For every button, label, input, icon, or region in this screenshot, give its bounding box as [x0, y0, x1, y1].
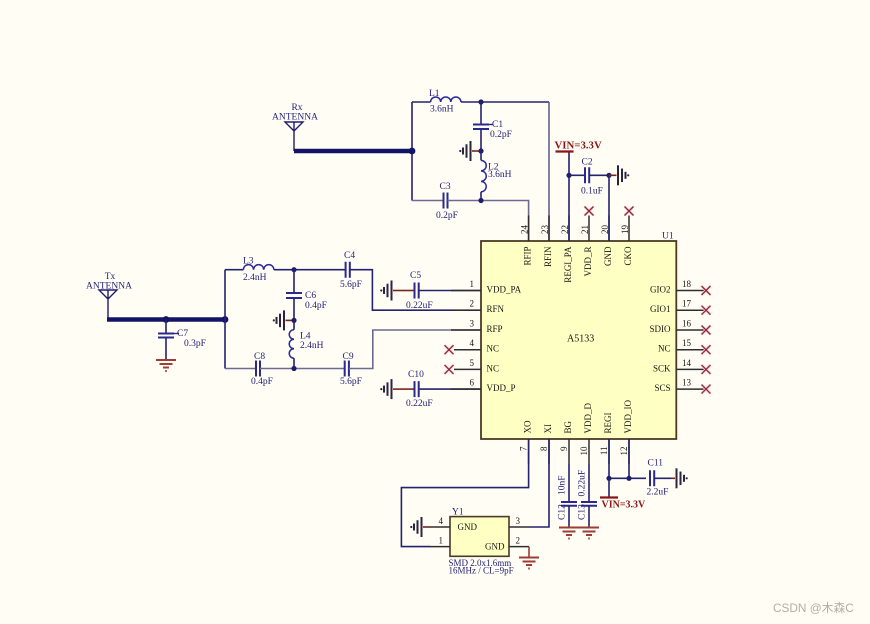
wire pin11 node to C11: [609, 477, 646, 479]
svg-text:4: 4: [470, 338, 475, 348]
svg-text:2: 2: [516, 536, 521, 546]
no-connect X pin 13: [702, 385, 711, 394]
pin 4 NC: [454, 338, 499, 354]
svg-text:5.6pF: 5.6pF: [340, 280, 362, 290]
node junction dot Tx net end: [222, 316, 229, 323]
crystal pin 2 stub: [509, 536, 529, 547]
node junction dot thick wire to L-network: [409, 148, 416, 155]
svg-text:CKO: CKO: [623, 246, 633, 266]
wire pin7 to crystal pin1: [401, 439, 528, 547]
wire pin8 to crystal pin3: [529, 439, 549, 527]
ground at C1/L2 node (sideways): [459, 141, 480, 161]
svg-text:VDD_D: VDD_D: [583, 403, 593, 434]
svg-text:ANTENNA: ANTENNA: [272, 113, 318, 123]
svg-text:VIN=3.3V: VIN=3.3V: [602, 500, 647, 511]
no-connect X pin 4: [445, 345, 454, 354]
svg-text:C3: C3: [440, 182, 451, 192]
no-connect X pin 15: [702, 345, 711, 354]
capacitor C1: [473, 102, 512, 151]
no-connect X pin 18: [702, 286, 711, 295]
wire Rx top to L1: [412, 101, 431, 103]
wire Tx left vertical: [224, 270, 226, 369]
svg-text:A5133: A5133: [567, 334, 594, 345]
node junction dot pin12: [626, 476, 631, 481]
ground right of C11 (sideways): [654, 468, 688, 488]
op-amp U1 A5133 body: [481, 232, 676, 440]
svg-text:RFN: RFN: [487, 304, 505, 314]
svg-text:4: 4: [439, 516, 444, 526]
svg-text:CSDN @木森C: CSDN @木森C: [773, 601, 854, 615]
ground at crystal pin 2: [519, 547, 539, 569]
svg-text:C11: C11: [648, 459, 664, 469]
crystal pin 4 stub: [430, 516, 450, 527]
svg-text:16MHz / CL=9pF: 16MHz / CL=9pF: [449, 566, 514, 576]
antenna ANT-TX: [99, 290, 117, 320]
pin 10 VDD_D: [579, 403, 593, 464]
svg-text:L3: L3: [243, 257, 254, 267]
inductor L4: [289, 320, 323, 368]
no-connect X pin 21: [585, 207, 594, 216]
crystal pin 1 stub: [430, 536, 450, 547]
svg-text:VDD_PA: VDD_PA: [487, 285, 522, 295]
svg-text:16: 16: [682, 319, 692, 329]
wire thick Tx antenna net: [107, 317, 225, 321]
svg-text:C12: C12: [558, 504, 568, 520]
svg-text:2.4nH: 2.4nH: [243, 273, 267, 283]
ground right of C2 (sideways): [609, 165, 629, 185]
svg-text:GND: GND: [485, 542, 505, 552]
svg-text:C13: C13: [578, 504, 588, 520]
pin 22 REGI_PA: [560, 216, 573, 283]
ground at crystal pin 4 (sideways): [410, 517, 430, 537]
node Tx ANTENNA label: [86, 272, 132, 292]
svg-text:0.1uF: 0.1uF: [581, 187, 603, 197]
ground for C5 (sideways): [380, 281, 402, 301]
wire pin23 vertical: [548, 102, 550, 241]
svg-text:XI: XI: [543, 424, 553, 434]
svg-text:3.6nH: 3.6nH: [488, 170, 512, 180]
svg-text:VDD_IO: VDD_IO: [623, 400, 633, 434]
no-connect X pin 5: [445, 365, 454, 374]
svg-text:REGI: REGI: [603, 413, 613, 434]
svg-text:3: 3: [470, 319, 475, 329]
svg-text:NC: NC: [487, 344, 500, 354]
svg-text:RFP: RFP: [487, 324, 503, 334]
pin 21 VDD_R: [580, 216, 593, 277]
capacitor C3: [436, 182, 458, 221]
ground below C13: [579, 528, 599, 539]
svg-text:VDD_P: VDD_P: [487, 383, 516, 393]
svg-text:0.22uF: 0.22uF: [406, 399, 433, 409]
wire Rx bottom left segment: [412, 200, 444, 202]
pin 3 RFP: [451, 319, 503, 335]
inductor L1: [429, 89, 461, 115]
node Rx ANTENNA label: [272, 103, 318, 123]
wire Tx bottom to C8: [225, 368, 256, 370]
svg-text:C4: C4: [344, 251, 355, 261]
capacitor C8: [251, 352, 273, 387]
svg-text:0.4pF: 0.4pF: [305, 301, 327, 311]
ground for C10 (sideways): [380, 379, 402, 399]
svg-text:19: 19: [620, 225, 630, 235]
node junction dot C7 tap: [163, 316, 170, 323]
svg-text:24: 24: [520, 225, 530, 235]
svg-text:0.2pF: 0.2pF: [490, 130, 512, 140]
pin 23 RFIN: [540, 216, 553, 268]
ground below C12: [559, 528, 579, 539]
svg-text:SDIO: SDIO: [649, 324, 671, 334]
svg-text:U1: U1: [662, 232, 674, 242]
pin 12 VDD_IO: [619, 400, 633, 464]
svg-text:15: 15: [682, 338, 692, 348]
svg-text:VDD_R: VDD_R: [583, 247, 593, 277]
capacitor C11: [647, 459, 669, 498]
svg-text:0.22uF: 0.22uF: [578, 470, 588, 497]
svg-text:13: 13: [682, 378, 692, 388]
node junction dot pin20/gnd: [606, 173, 611, 178]
svg-text:5: 5: [470, 358, 475, 368]
wire C9 to pin3: [349, 330, 481, 369]
svg-text:GIO1: GIO1: [650, 304, 671, 314]
no-connect X pin 19: [625, 207, 634, 216]
wire C4 to pin2: [350, 270, 481, 311]
pin 9 BG: [559, 420, 573, 464]
node junction dot L2 bottom: [478, 198, 483, 203]
node junction dot C1/L2/gnd: [478, 148, 483, 153]
capacitor C12: [558, 464, 578, 527]
svg-text:0.2pF: 0.2pF: [436, 211, 458, 221]
pin 17 GIO1: [650, 299, 706, 315]
svg-text:NC: NC: [658, 344, 671, 354]
wire L3 to C4: [274, 269, 346, 271]
capacitor C2: [581, 158, 603, 197]
no-connect X pin 16: [702, 326, 711, 335]
svg-text:1: 1: [470, 279, 475, 289]
svg-text:2.2uF: 2.2uF: [647, 488, 669, 498]
svg-text:0.4pF: 0.4pF: [251, 377, 273, 387]
svg-text:5.6pF: 5.6pF: [340, 377, 362, 387]
capacitor C9: [340, 352, 362, 387]
svg-text:REGI_PA: REGI_PA: [563, 246, 573, 283]
capacitor C10: [402, 370, 481, 409]
pin 16 SDIO: [649, 319, 706, 335]
pin 15 NC: [658, 338, 706, 354]
pin 6 VDD_P: [451, 378, 516, 394]
inductor L3: [243, 257, 274, 284]
pin 11 REGI: [599, 413, 613, 465]
wire L1 to pin23 drop: [461, 101, 549, 103]
svg-text:7: 7: [519, 446, 529, 451]
svg-text:0.3pF: 0.3pF: [184, 339, 206, 349]
capacitor C13: [578, 464, 598, 527]
svg-text:C9: C9: [343, 352, 354, 362]
node junction dot L1/C1: [478, 99, 483, 104]
pin 19 CKO: [620, 216, 633, 266]
svg-text:18: 18: [682, 279, 692, 289]
node junction dot VIN/C2: [566, 173, 571, 178]
wire Rx left vertical: [411, 102, 413, 201]
svg-text:14: 14: [682, 358, 692, 368]
pin 18 GIO2: [650, 279, 706, 295]
wire C3 to pin24: [448, 201, 529, 242]
svg-text:GIO2: GIO2: [650, 285, 671, 295]
capacitor C4: [340, 251, 362, 290]
svg-text:RFIN: RFIN: [543, 246, 553, 267]
svg-text:L4: L4: [300, 332, 311, 342]
svg-text:Rx: Rx: [291, 103, 302, 113]
no-connect X pin 14: [702, 365, 711, 374]
wire C8 to C9: [260, 368, 345, 370]
svg-text:SCS: SCS: [654, 383, 670, 393]
svg-text:SCK: SCK: [653, 363, 671, 373]
capacitor C6: [286, 270, 327, 321]
no-connect X pin 17: [702, 306, 711, 315]
pin 24 RFIP: [520, 216, 533, 266]
crystal Y1 body: [450, 508, 509, 557]
svg-text:12: 12: [619, 447, 629, 456]
svg-text:6: 6: [470, 378, 475, 388]
pin 8 XI: [539, 424, 553, 464]
crystal pin 3 stub: [509, 516, 529, 527]
ground below C7: [156, 360, 176, 371]
svg-text:VIN=3.3V: VIN=3.3V: [555, 140, 602, 152]
svg-text:Y1: Y1: [452, 508, 464, 518]
svg-text:C7: C7: [177, 329, 188, 339]
svg-text:C8: C8: [254, 352, 265, 362]
pin 20 GND: [600, 216, 613, 267]
svg-text:2: 2: [470, 299, 475, 309]
wire pin12 down: [628, 439, 630, 478]
svg-text:3.6nH: 3.6nH: [430, 105, 454, 115]
wire VIN node to C2: [569, 174, 585, 176]
svg-text:GND: GND: [603, 246, 613, 266]
pin 13 SCS: [654, 378, 706, 394]
wire C2 to pin20: [589, 174, 609, 176]
wire pin11 down: [608, 439, 610, 478]
svg-text:ANTENNA: ANTENNA: [86, 282, 132, 292]
svg-text:L1: L1: [429, 89, 440, 99]
pin 5 NC: [454, 358, 499, 374]
power VIN=3.3V top: [555, 140, 602, 152]
crystal notes: [449, 558, 514, 576]
ground at C6/L4 node (sideways): [273, 310, 294, 330]
svg-text:RFIP: RFIP: [523, 247, 533, 266]
pin 14 SCK: [653, 358, 706, 374]
pin 1 VDD_PA: [451, 279, 522, 295]
svg-text:C10: C10: [408, 370, 424, 380]
svg-text:BG: BG: [563, 420, 573, 433]
svg-text:0.22uF: 0.22uF: [406, 301, 433, 311]
node junction dot L3/C6: [291, 267, 296, 272]
svg-text:8: 8: [539, 446, 549, 451]
wire pin20 vertical: [608, 175, 610, 241]
svg-text:10: 10: [579, 446, 589, 456]
svg-text:XO: XO: [523, 420, 533, 433]
svg-text:GND: GND: [458, 522, 478, 532]
wire thick Rx antenna net: [294, 149, 412, 153]
svg-text:17: 17: [682, 299, 692, 309]
svg-text:11: 11: [599, 447, 609, 456]
svg-text:C5: C5: [410, 271, 421, 281]
inductor L2: [481, 151, 512, 201]
power VIN=3.3V bottom: [600, 478, 646, 510]
svg-text:3: 3: [516, 516, 521, 526]
svg-text:C2: C2: [582, 158, 593, 168]
svg-text:2.4nH: 2.4nH: [300, 341, 324, 351]
pin 2 RFN: [451, 299, 505, 315]
wire Tx top to L3: [225, 269, 243, 271]
svg-text:NC: NC: [487, 363, 500, 373]
node junction dot C6/L4: [291, 318, 296, 323]
node junction dot pin11: [606, 476, 611, 481]
svg-text:10nF: 10nF: [558, 475, 568, 495]
svg-text:21: 21: [580, 225, 590, 234]
capacitor C7: [158, 320, 206, 360]
wire VIN to pin22: [568, 153, 570, 242]
antenna ANT-RX: [285, 122, 303, 151]
svg-text:1: 1: [439, 536, 444, 546]
svg-text:23: 23: [540, 225, 550, 235]
pin 7 XO: [519, 420, 533, 464]
node junction dot L4 bottom: [291, 366, 296, 371]
svg-text:C1: C1: [492, 120, 503, 130]
svg-text:Tx: Tx: [105, 272, 116, 282]
svg-text:C6: C6: [305, 291, 316, 301]
capacitor C5: [402, 271, 481, 311]
svg-text:9: 9: [559, 446, 569, 451]
